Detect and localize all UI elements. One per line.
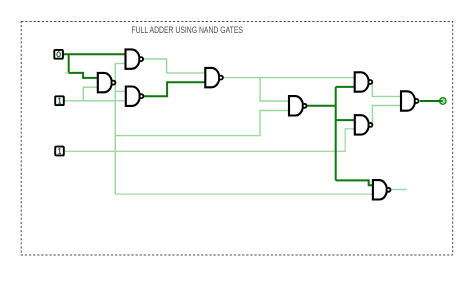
NAND gate G2	[98, 73, 116, 92]
NAND gate G5	[289, 96, 307, 115]
wire net G8 output to SUM terminal (dark green)	[420, 100, 443, 102]
NAND gate G9	[373, 180, 391, 199]
wire net G9 output dangling (light green)	[391, 189, 406, 191]
wire net G7 output (light green)	[372, 106, 400, 125]
wire net G5 output (dark green)	[307, 87, 372, 185]
wire net G1 output (light green)	[144, 59, 205, 73]
input A box value 0	[54, 50, 63, 59]
wire net B from input 1 (light green, value 1)	[64, 87, 125, 101]
NAND gate G1	[126, 49, 144, 68]
wire net G3 output (dark green)	[144, 82, 205, 96]
NAND gate G7	[355, 115, 373, 134]
wire net G2 output (light green)	[115, 64, 288, 195]
NAND gate G8	[401, 91, 419, 110]
wire net Cin from input 2 (light green)	[64, 129, 354, 152]
NAND gate G3	[126, 87, 144, 106]
wire stub light nub near node A bend	[65, 72, 69, 74]
dashed circuit border frame	[21, 22, 453, 256]
svg-text:FULL ADDER USING NAND GATES: FULL ADDER USING NAND GATES	[132, 25, 244, 35]
wire net G2 output bottom run to G9 (light green)	[115, 193, 372, 195]
wire net G4 output (light green)	[224, 78, 354, 101]
input Cin box value 1	[55, 147, 64, 156]
output terminal SUM	[440, 98, 447, 105]
NAND gate G4	[205, 68, 223, 87]
NAND gate G6	[355, 72, 373, 91]
input B box value 1	[55, 96, 64, 105]
wire net G6 output (light green)	[372, 83, 400, 97]
wire net A from input 0 (dark green, value 0)	[63, 54, 124, 78]
